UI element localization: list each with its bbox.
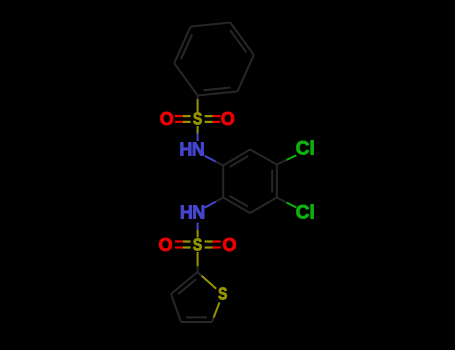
svg-text:O: O bbox=[158, 235, 172, 255]
svg-text:HN: HN bbox=[180, 202, 205, 222]
svg-text:Cl: Cl bbox=[296, 202, 315, 223]
svg-text:S: S bbox=[193, 109, 203, 129]
svg-text:O: O bbox=[222, 235, 236, 255]
svg-text:O: O bbox=[160, 109, 174, 129]
svg-text:Cl: Cl bbox=[296, 139, 315, 160]
svg-text:S: S bbox=[218, 284, 228, 304]
svg-text:S: S bbox=[193, 235, 203, 255]
svg-text:O: O bbox=[221, 109, 235, 129]
svg-text:HN: HN bbox=[179, 140, 204, 160]
